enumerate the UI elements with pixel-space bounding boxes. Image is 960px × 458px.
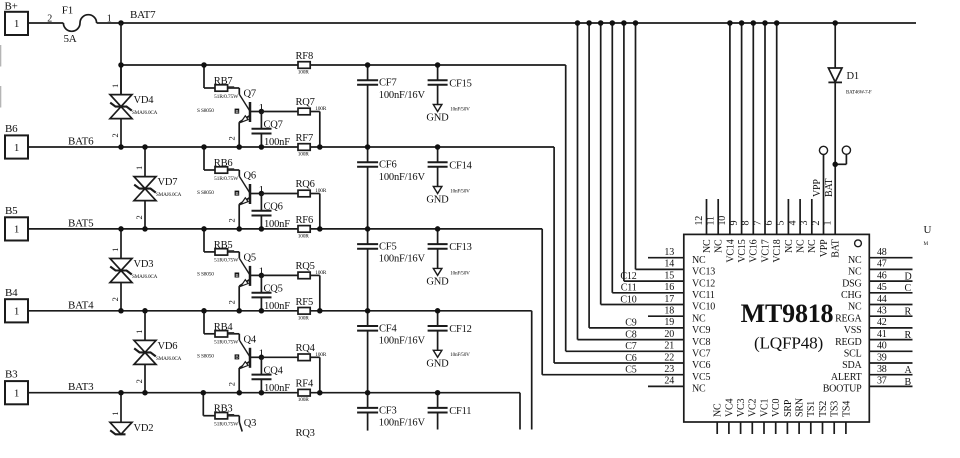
capacitor CQ7 100nF [252,112,291,149]
svg-text:S S8050: S S8050 [197,190,214,196]
svg-text:C7: C7 [625,341,636,352]
svg-text:BAT7: BAT7 [130,9,156,21]
svg-text:REGA: REGA [835,313,862,324]
junction dots on BAT7/RF8 line [201,62,440,68]
ground symbol below CF14 [426,187,470,206]
pin 2 VPP [811,155,830,258]
svg-text:C5: C5 [625,365,636,376]
svg-text:NC: NC [692,255,706,266]
capacitor CQ6 100nF [252,194,291,231]
svg-text:C12: C12 [620,271,636,282]
svg-text:VC1: VC1 [759,399,770,417]
svg-text:SRP: SRP [783,399,794,417]
resistor RB4 51R/0.75W [214,322,239,346]
svg-text:VD7: VD7 [158,177,178,188]
svg-text:VD4: VD4 [134,95,155,106]
svg-text:B: B [235,191,238,196]
svg-text:SMAJ6.0CA: SMAJ6.0CA [132,274,158,280]
pin 17 VC10 [664,294,715,313]
svg-text:VC10: VC10 [692,302,715,313]
capacitor CF5 100nF/16V [357,229,425,311]
svg-text:100R: 100R [298,152,309,158]
svg-text:C9: C9 [625,318,636,329]
svg-text:B3: B3 [5,369,18,381]
pin 7 VC17 [752,20,771,262]
transistor cell Q3 (partially cropped) [203,393,314,439]
pin 6 VC18 [764,20,783,262]
TVS diode VD4 SMAJ6.0CA [110,65,158,147]
junction dots on top bus [575,20,639,26]
svg-text:VD2: VD2 [134,423,154,434]
svg-text:3: 3 [799,221,810,226]
resistor RB6 51R/0.75W [214,158,239,182]
pin 46 DSG [842,270,912,289]
svg-text:51R/0.75W: 51R/0.75W [214,176,239,182]
wire B+ to fuse [28,22,63,24]
svg-text:Q4: Q4 [244,334,257,345]
pin 44 NC [848,294,913,313]
svg-text:REGD: REGD [835,337,861,348]
svg-text:RQ3: RQ3 [296,428,315,439]
pin 31 SRP [783,399,794,434]
svg-text:VC7: VC7 [692,349,710,360]
ground symbol below CF15 [426,105,470,124]
terminal B6 [5,123,28,159]
svg-text:2: 2 [110,133,120,137]
capacitor CF14 10nF/50V [428,147,473,187]
svg-text:Q7: Q7 [244,89,256,100]
transistor Q7 SS8050 [197,89,264,148]
pin 27 VC3 [736,399,747,434]
svg-text:11: 11 [706,216,717,225]
pin 3 NC [799,199,818,253]
node Q6 collector junction [259,191,265,197]
junction dots on rail y=392.7 [0,0,1,1]
svg-text:100R: 100R [298,233,309,239]
capacitor CF7 100nF/16V [357,65,425,147]
svg-text:VC15: VC15 [737,239,748,262]
wire bus drop to pin 17 [601,23,684,305]
pin 38 ALERT [831,364,913,383]
pin 25 NC [713,403,724,434]
pin 28 VC2 [748,399,759,434]
capacitor CF13 10nF/50V [428,229,472,269]
svg-text:C8: C8 [625,329,636,340]
svg-text:CF11: CF11 [449,406,471,417]
capacitor CQ5 100nF [252,275,291,312]
resistor RF5 100R [296,297,314,322]
svg-text:GND: GND [426,277,449,288]
resistor RF6 100R [296,215,314,240]
diode D1 BAT46W-7-F [828,23,872,164]
IC U1 MT9818 LQFP48 body [684,234,870,422]
svg-text:15: 15 [664,270,674,281]
svg-text:10nF/50V: 10nF/50V [450,352,470,358]
pin 10 VC14 [717,20,736,262]
wire bus drop to pin 19 [589,23,684,328]
svg-text:BAT: BAT [824,179,835,197]
svg-text:B6: B6 [5,123,18,135]
svg-text:D: D [905,272,912,283]
terminal B5 [5,205,28,241]
svg-text:5A: 5A [64,33,77,45]
resistor RF8 100R [296,51,314,76]
svg-text:B4: B4 [5,287,18,299]
svg-text:RQ5: RQ5 [296,261,315,272]
svg-text:CHG: CHG [841,290,862,301]
wire NC stub pin 24 [648,385,684,387]
wire net BAT3 rail [28,393,520,430]
svg-text:S S8050: S S8050 [197,354,214,360]
pin 48 NC [848,247,913,266]
svg-text:CQ6: CQ6 [264,202,283,213]
junction fuse/BAT7 node [118,20,124,26]
resistor RB5 51R/0.75W [214,240,239,264]
capacitor CF3 100nF/16V [357,393,425,431]
svg-text:RF5: RF5 [296,297,314,308]
pin 13 NC [664,247,706,266]
capacitor CF11 10nF/50V [428,393,472,430]
resistor RF4 100R [296,379,314,404]
svg-text:100nF/16V: 100nF/16V [379,172,426,183]
wire NC stub pin 18 [648,315,684,317]
svg-text:41: 41 [877,329,887,340]
svg-text:A: A [905,365,913,376]
wire bus drop to pin 16 [612,23,684,293]
left edge artifact marks [0,45,1,108]
svg-text:4: 4 [787,221,798,226]
wire bus drop to pin 14 [636,23,684,269]
svg-text:100nF/16V: 100nF/16V [379,90,426,101]
pin 36 TS4 [841,401,852,434]
svg-text:1: 1 [14,388,19,400]
svg-text:NC: NC [692,384,706,395]
svg-text:100R: 100R [298,315,309,321]
svg-text:1: 1 [14,306,19,318]
svg-text:17: 17 [664,294,674,305]
svg-text:7: 7 [752,221,763,226]
svg-text:NC: NC [713,403,724,417]
svg-text:B: B [235,273,238,278]
pin 9 VC15 [729,20,748,262]
svg-text:42: 42 [877,317,887,328]
pin 37 BOOTUP [823,376,913,395]
svg-text:1: 1 [110,84,120,88]
svg-text:48: 48 [877,247,887,258]
svg-text:1: 1 [14,18,19,30]
svg-text:1: 1 [134,166,144,170]
svg-text:Q6: Q6 [244,171,256,182]
pin 47 NC [848,259,913,278]
pin 23 VC5 [664,364,710,383]
svg-text:C: C [905,283,912,294]
svg-text:SMAJ6.0CA: SMAJ6.0CA [132,110,158,116]
wire net BAT5 rail [28,229,684,375]
svg-text:10nF/50V: 10nF/50V [450,188,470,194]
svg-text:ALERT: ALERT [831,372,862,383]
capacitor CF15 10nF/50V [428,65,472,105]
terminal B3 [5,369,28,405]
svg-text:BAT46W-7-F: BAT46W-7-F [846,91,872,96]
svg-text:VC18: VC18 [772,239,783,262]
svg-text:B5: B5 [5,205,18,217]
svg-text:43: 43 [877,306,887,317]
svg-text:NC: NC [848,267,862,278]
svg-text:VC2: VC2 [748,399,759,417]
svg-text:100nF/16V: 100nF/16V [379,254,426,265]
svg-text:51R/0.75W: 51R/0.75W [214,340,239,346]
svg-text:S S8050: S S8050 [197,272,214,278]
svg-text:1: 1 [14,224,19,236]
svg-text:1: 1 [14,142,19,154]
svg-text:GND: GND [426,358,449,369]
svg-text:47: 47 [877,259,887,270]
transistor Q4 SS8050 [197,334,264,392]
svg-text:51R/0.75W: 51R/0.75W [214,258,239,264]
svg-text:6: 6 [764,221,775,226]
pin 30 VC0 [771,399,782,434]
svg-text:BAT: BAT [831,239,842,257]
svg-text:23: 23 [664,364,674,375]
pin 39 SDA [842,352,912,371]
svg-text:Q5: Q5 [244,252,256,263]
svg-text:VC11: VC11 [692,290,715,301]
svg-text:CF12: CF12 [449,324,472,335]
svg-text:RF6: RF6 [296,215,314,226]
svg-text:NC: NC [848,302,862,313]
junction D1 anode on bus [832,20,838,26]
junction dots on rail y=228.9 [0,0,1,1]
pin 34 TS2 [818,401,829,434]
svg-text:9: 9 [729,221,740,226]
TVS diode VD7 SMAJ6.0CA [134,147,182,229]
svg-text:2: 2 [110,297,120,301]
svg-text:C6: C6 [625,353,636,364]
svg-text:B: B [905,377,912,388]
svg-text:8: 8 [741,221,752,226]
svg-text:SMAJ6.0CA: SMAJ6.0CA [156,192,182,198]
svg-text:CF5: CF5 [379,242,397,253]
pin 19 VC9 [664,317,710,336]
svg-text:Q3: Q3 [244,418,256,429]
svg-text:BAT4: BAT4 [68,299,94,311]
svg-text:100R: 100R [298,70,309,76]
pin 29 VC1 [759,399,770,434]
svg-text:38: 38 [877,364,887,375]
svg-text:BAT3: BAT3 [68,381,94,393]
svg-text:NC: NC [784,239,795,253]
svg-text:40: 40 [877,341,887,352]
svg-text:100R: 100R [298,397,309,403]
TVS diode VD3 SMAJ6.0CA [110,229,158,311]
svg-text:24: 24 [664,376,674,387]
junction dots on rail y=147.0 [0,0,1,1]
capacitor CF4 100nF/16V [357,311,425,393]
svg-text:NC: NC [702,239,713,253]
resistor RQ6 100R [261,179,326,229]
svg-text:VC17: VC17 [760,239,771,262]
svg-text:10: 10 [717,216,728,226]
svg-text:DSG: DSG [842,278,861,289]
svg-text:2: 2 [134,379,144,383]
svg-text:100nF/16V: 100nF/16V [379,418,426,429]
svg-text:R: R [905,307,912,318]
resistor RQ7 100R [261,97,326,147]
svg-text:VC12: VC12 [692,278,715,289]
svg-text:NC: NC [692,313,706,324]
svg-text:RF4: RF4 [296,379,314,390]
svg-text:5: 5 [776,221,787,226]
svg-text:CF14: CF14 [449,160,472,171]
svg-text:R: R [905,330,912,341]
node Q7 collector junction [259,109,265,115]
transistor Q6 SS8050 [197,171,264,229]
svg-text:BAT5: BAT5 [68,217,94,229]
svg-text:46: 46 [877,270,887,281]
svg-text:20: 20 [664,329,674,340]
svg-text:100nF: 100nF [264,219,290,230]
pin 4 NC [787,199,806,253]
wire RB5 branch [204,229,250,275]
wire net BAT6 rail [28,147,684,363]
svg-text:VC8: VC8 [692,337,710,348]
svg-text:CF4: CF4 [379,323,397,334]
wire NC stub pin 13 [648,257,684,259]
svg-text:RQ4: RQ4 [296,343,316,354]
pin 26 VC4 [724,399,735,434]
svg-text:BAT6: BAT6 [68,136,94,148]
capacitor CF12 10nF/50V [428,311,472,351]
svg-text:VC9: VC9 [692,325,710,336]
svg-text:B: B [235,109,238,114]
svg-text:D1: D1 [847,71,859,82]
svg-text:16: 16 [664,282,674,293]
svg-text:MT9818: MT9818 [741,299,834,328]
junction dots on BAT5 rail [118,226,440,232]
svg-text:1: 1 [110,412,120,416]
svg-text:CF3: CF3 [379,405,397,416]
svg-text:SMAJ6.0CA: SMAJ6.0CA [156,356,182,362]
svg-text:CQ5: CQ5 [264,283,283,294]
svg-text:2: 2 [811,221,822,226]
TVS diode VD6 SMAJ6.0CA [134,311,182,393]
svg-text:100nF/16V: 100nF/16V [379,336,426,347]
svg-text:51R/0.75W: 51R/0.75W [214,422,239,428]
svg-text:TS4: TS4 [841,401,852,417]
test point circle BAT [824,146,851,197]
svg-text:C10: C10 [620,294,636,305]
svg-text:2: 2 [134,215,144,219]
pin 18 NC [664,306,706,325]
svg-text:U: U [924,224,932,236]
svg-text:1: 1 [110,248,120,252]
svg-text:BOOTUP: BOOTUP [823,384,862,395]
svg-text:C11: C11 [621,283,637,294]
svg-text:CF7: CF7 [379,78,397,89]
junction dots on BAT3 rail [118,390,440,396]
svg-text:100nF: 100nF [264,137,290,148]
wire net BAT4 rail [28,311,532,430]
terminal B4 [5,287,28,323]
junction dots on BAT6 rail [118,144,440,150]
svg-text:CQ7: CQ7 [264,120,283,131]
svg-text:F1: F1 [62,5,73,17]
svg-text:VPP: VPP [819,239,830,257]
svg-text:GND: GND [426,195,449,206]
pin 45 CHG [841,282,913,301]
pin 40 SCL [844,341,913,360]
svg-text:2: 2 [226,382,236,386]
pin 41 REGD [835,329,912,348]
svg-text:1: 1 [134,330,144,334]
svg-text:12: 12 [694,216,705,226]
svg-text:VD6: VD6 [158,341,178,352]
pin 24 NC [664,376,706,395]
svg-text:2: 2 [47,14,52,25]
test point circle VPP [812,146,828,197]
ground symbol below CF12 [426,350,470,369]
svg-text:CF13: CF13 [449,242,472,253]
resistor RF7 100R [296,133,314,158]
wire net BAT7 rail [121,65,684,351]
resistor RQ5 100R [261,261,326,311]
wire RB4 branch [204,311,250,357]
svg-text:NC: NC [807,239,818,253]
svg-text:VC16: VC16 [749,239,760,262]
pin 1 BAT [823,164,842,257]
pin 43 REGA [835,306,912,325]
pin 16 VC11 [664,282,715,301]
svg-text:VD3: VD3 [134,259,154,270]
svg-text:CF6: CF6 [379,160,397,171]
svg-text:M: M [924,241,929,247]
TVS diode VD2 SMAJ6.0CA [110,393,153,435]
svg-text:S S8050: S S8050 [197,108,214,114]
ground symbol below CF13 [426,268,470,287]
svg-text:SCL: SCL [844,349,862,360]
wire bus drop to pin 20 [578,23,684,340]
svg-text:39: 39 [877,352,887,363]
svg-text:TS2: TS2 [818,401,829,417]
resistor RQ4 100R [261,343,326,393]
svg-text:45: 45 [877,282,887,293]
svg-text:13: 13 [664,247,674,258]
pin 14 VC13 [664,259,715,278]
svg-text:22: 22 [664,352,674,363]
svg-text:TS3: TS3 [830,401,841,417]
svg-text:RF7: RF7 [296,133,314,144]
svg-text:VC13: VC13 [692,267,715,278]
capacitor CQ4 100nF [252,357,291,394]
pin 11 NC [706,199,725,253]
svg-text:RQ6: RQ6 [296,179,315,190]
svg-text:VC5: VC5 [692,372,710,383]
svg-text:VSS: VSS [844,325,862,336]
node Q4 collector junction [259,355,265,361]
svg-text:2: 2 [226,218,236,222]
pin 35 TS3 [830,401,841,434]
node Q5 collector junction [259,273,265,279]
svg-text:37: 37 [877,376,887,387]
svg-text:RF8: RF8 [296,51,314,62]
svg-text:1: 1 [823,221,834,226]
svg-text:21: 21 [664,341,674,352]
svg-text:100nF: 100nF [264,383,290,394]
pin 15 VC12 [664,270,715,289]
capacitor CF6 100nF/16V [357,147,425,229]
wire top bus BAT7 [97,22,916,24]
junction dots on BAT4 rail [118,308,440,314]
